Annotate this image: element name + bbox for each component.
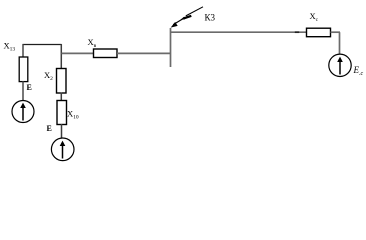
wire branch2 vertical top [60, 44, 62, 69]
wire top-left horizontal joining branch1 and branch2 [23, 44, 62, 46]
svg-text:Xс: Xс [310, 11, 319, 23]
resistor X10 [57, 101, 67, 125]
source Ec arrow [339, 60, 341, 75]
wire corner down to source [339, 32, 341, 54]
wire Xc to corner [331, 31, 341, 33]
wire branch2 to source [61, 124, 63, 139]
source G2 circle [51, 138, 74, 161]
svg-text:Xв: Xв [88, 37, 97, 49]
svg-text:X2: X2 [44, 70, 53, 82]
wire middle horizontal to Xb [62, 52, 94, 54]
source G1 arrow [22, 106, 24, 121]
wire junction tick [295, 31, 299, 33]
lightning arrow K3 [186, 7, 203, 16]
source G2 arrow [62, 144, 64, 159]
wire branch1 vertical top [22, 44, 24, 58]
resistor X2 [57, 69, 67, 94]
lightning flash zigzag [183, 16, 191, 19]
resistor X13 [19, 57, 28, 82]
wire branch1 to source [22, 81, 24, 101]
resistor Xc [307, 28, 331, 37]
svg-text:X10: X10 [67, 109, 79, 121]
source G1 circle [12, 101, 34, 123]
wire bus to Xc [171, 31, 307, 33]
source Ec circle [329, 54, 351, 76]
wire Xb to bus [117, 52, 171, 54]
bus bar [170, 28, 172, 67]
svg-text:X13: X13 [4, 41, 16, 53]
svg-text:К3: К3 [205, 13, 216, 23]
wire between X2 and X10 [60, 93, 62, 102]
svg-text:E: E [47, 124, 52, 133]
svg-text:E: E [27, 83, 32, 92]
resistor Xb [94, 49, 118, 58]
svg-text:E.с: E.с [353, 65, 364, 77]
